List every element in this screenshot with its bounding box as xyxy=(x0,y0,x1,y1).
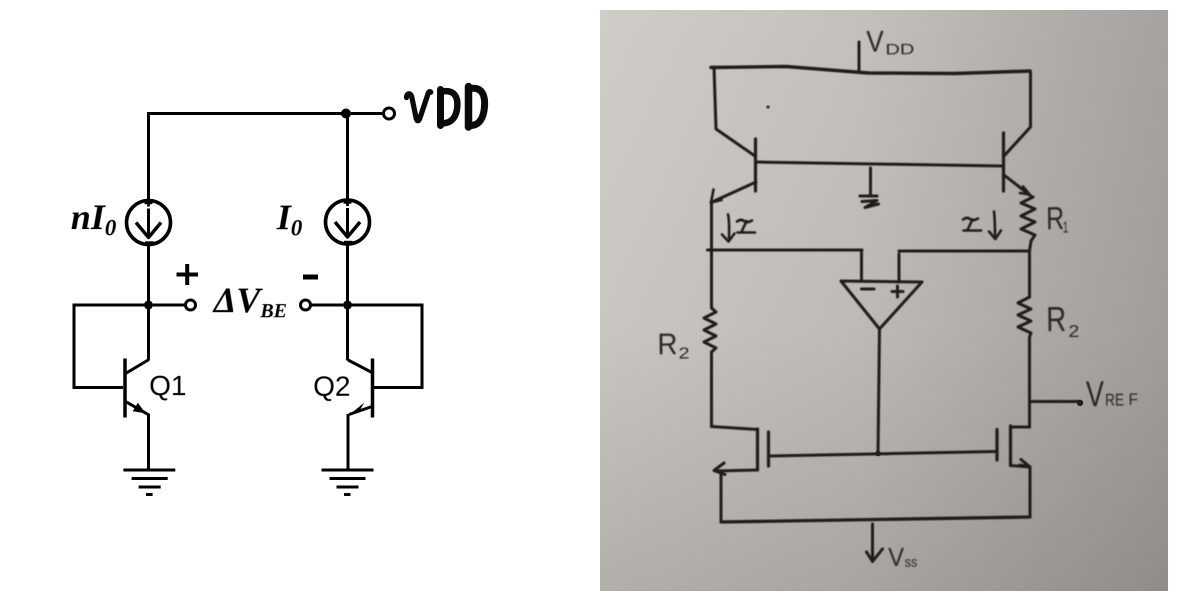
transistor M4 source with arrow xyxy=(1011,466,1031,468)
current source nI0 xyxy=(127,200,171,245)
transistor M1 emitter with arrow xyxy=(711,182,756,203)
wire VREF tap xyxy=(1030,400,1078,403)
wire left branch upper xyxy=(710,202,713,308)
ground under Q2 xyxy=(322,470,374,495)
pen dot mark xyxy=(766,105,769,108)
svg-text:2: 2 xyxy=(1068,322,1079,341)
label I right arrow xyxy=(994,212,995,239)
photo paper background xyxy=(600,10,1168,591)
label I left glyph xyxy=(737,220,755,233)
op-amp plus input mark xyxy=(892,286,903,297)
svg-text:F: F xyxy=(1128,391,1138,409)
svg-text:V: V xyxy=(1086,373,1104,414)
wire step to M4 drain xyxy=(1011,426,1030,429)
transistor M2 emitter with arrow xyxy=(1004,175,1031,196)
wire VDD stub xyxy=(858,42,861,72)
wire left branch lower xyxy=(710,352,713,427)
svg-text:V: V xyxy=(888,542,905,572)
wire to opamp minus xyxy=(708,249,863,252)
svg-text:R: R xyxy=(1046,200,1064,236)
transistor M3 source with arrow xyxy=(716,470,758,471)
wire VDD rail top xyxy=(149,114,347,201)
wire to VDD terminal xyxy=(351,112,383,115)
wire R1 to node xyxy=(1030,241,1032,251)
wire mid rail between gates xyxy=(756,162,1003,166)
svg-text:ΔVBE: ΔVBE xyxy=(212,280,287,322)
wire R2 down xyxy=(1028,337,1031,427)
svg-text:I0: I0 xyxy=(276,197,303,240)
terminal VDD open circle xyxy=(384,108,395,119)
wire right source to node xyxy=(346,245,349,306)
wire left edge down xyxy=(714,67,755,156)
svg-text:ss: ss xyxy=(905,554,918,570)
transistor M4 channel bar xyxy=(1009,426,1012,466)
transistor M2 bar xyxy=(1002,133,1005,191)
wire right branch top xyxy=(346,114,349,200)
wire bottom rail xyxy=(721,517,1030,522)
wire M3 source down xyxy=(720,472,723,522)
resistor R2 left zigzag xyxy=(704,308,716,352)
svg-text:R: R xyxy=(657,328,677,361)
label VDD handwritten xyxy=(407,87,485,128)
svg-text:RE: RE xyxy=(1105,390,1124,409)
wire right edge down xyxy=(1004,72,1031,156)
transistor M3 gate bar xyxy=(767,432,770,466)
wire Q2 base loop xyxy=(348,305,423,388)
svg-text:R: R xyxy=(1046,300,1066,339)
terminal minus open circle xyxy=(301,300,311,310)
wire gate rail xyxy=(770,452,997,457)
transistor M1 bar xyxy=(754,139,757,191)
wire right branch to R2 xyxy=(1028,251,1031,297)
ground under Q1 xyxy=(123,470,175,495)
wire plus input to R1 node xyxy=(899,250,1029,253)
wire opamp plus stub xyxy=(898,254,901,282)
label plus sign xyxy=(177,264,199,285)
node VREF arrowhead xyxy=(1077,400,1083,406)
resistor R1 zigzag xyxy=(1021,197,1035,241)
svg-text:DD: DD xyxy=(885,41,914,58)
wire VSS stub with arrow xyxy=(871,524,874,559)
node opamp output junction xyxy=(875,451,881,457)
op-amp minus input mark xyxy=(862,288,875,291)
terminal plus open circle xyxy=(186,300,196,310)
transistor M3 channel bar xyxy=(756,429,759,470)
transistor Q2 xyxy=(348,305,373,470)
wire minus terminal to node xyxy=(311,304,343,307)
wire opamp output xyxy=(878,329,880,454)
node A left xyxy=(144,301,153,310)
wire node to + terminal xyxy=(153,304,185,307)
svg-text:Q1: Q1 xyxy=(149,370,186,401)
resistor R2 right zigzag xyxy=(1018,297,1031,337)
wire left source to node xyxy=(147,245,150,305)
wire step to M3 drain xyxy=(712,427,758,430)
label minus sign xyxy=(303,275,318,280)
op-amp U1 triangle xyxy=(841,281,922,329)
svg-text:2: 2 xyxy=(678,345,689,362)
svg-text:Q2: Q2 xyxy=(313,371,350,402)
current source I0 xyxy=(326,199,370,244)
transistor M4 gate bar xyxy=(995,430,998,461)
wire top rail xyxy=(711,67,1030,74)
node VDD junction xyxy=(341,109,351,119)
label I left arrow xyxy=(728,215,729,239)
transistor Q1 xyxy=(125,305,149,470)
svg-text:V: V xyxy=(866,25,884,58)
wire M4 source down xyxy=(1029,467,1032,517)
label I right glyph xyxy=(963,218,981,231)
svg-text:1: 1 xyxy=(1063,220,1069,237)
wire Q1 base loop xyxy=(74,305,149,388)
svg-text:nI0: nI0 xyxy=(71,197,117,240)
node B right xyxy=(343,301,352,310)
wire opamp minus stub xyxy=(860,250,863,281)
gates mid stub xyxy=(869,168,872,196)
